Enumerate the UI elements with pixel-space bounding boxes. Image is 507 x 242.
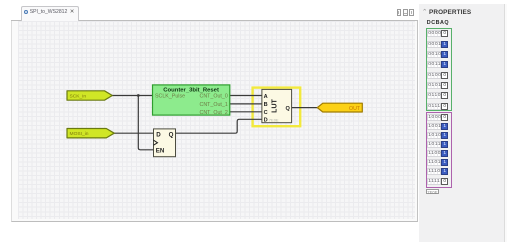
svg-text:OUT: OUT [349, 106, 361, 112]
svg-text:CNT_Out_0: CNT_Out_0 [200, 93, 228, 99]
svg-text:D: D [264, 118, 268, 124]
svg-text:C: C [264, 110, 268, 116]
svg-text:A: A [264, 94, 268, 100]
svg-text:D: D [156, 131, 161, 138]
svg-text:7E0E: 7E0E [269, 118, 279, 123]
svg-text:EN: EN [156, 148, 165, 155]
svg-text:CNT_Out_2: CNT_Out_2 [200, 110, 228, 116]
svg-text:MOSI_in: MOSI_in [70, 131, 89, 137]
svg-text:Counter_3bit_Reset: Counter_3bit_Reset [163, 87, 219, 93]
svg-text:LUT: LUT [272, 98, 279, 112]
svg-text:Q: Q [169, 131, 174, 138]
svg-text:CNT_Out_1: CNT_Out_1 [200, 102, 228, 108]
svg-text:SCLK_Pulse: SCLK_Pulse [155, 93, 185, 99]
svg-text:SCK_in: SCK_in [70, 93, 87, 99]
svg-text:Q: Q [286, 106, 291, 112]
svg-text:B: B [264, 102, 268, 108]
